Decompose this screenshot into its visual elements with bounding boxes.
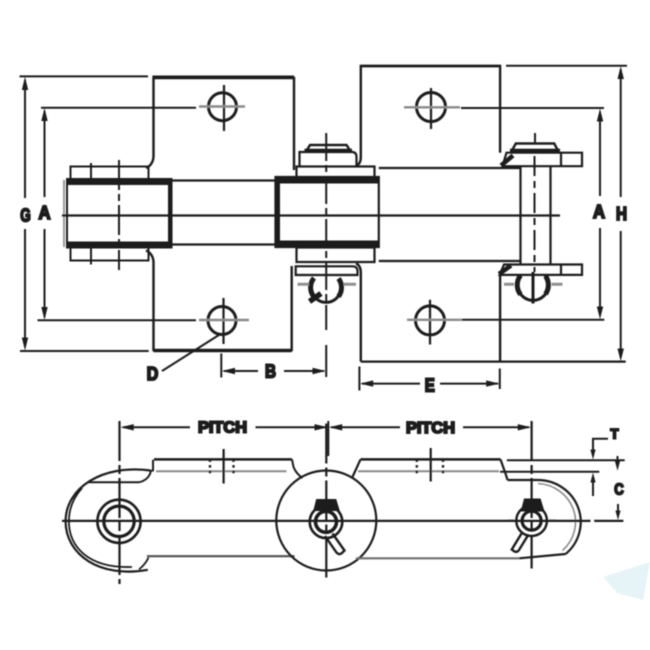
- right link left diagonal edge: [352, 459, 361, 478]
- side view horizontal centerline: [62, 520, 623, 522]
- right link hidden hole lines: [417, 459, 443, 474]
- left link end cap inner arc: [69, 488, 132, 567]
- right link right step diagonal: [501, 459, 508, 480]
- left pin vertical centerline: [118, 160, 120, 270]
- middle bottom cotter leg: [310, 294, 322, 302]
- right link bottom edge: [356, 557, 519, 559]
- pitch right arrowhead left: [329, 424, 342, 430]
- right pin gray dashes: [508, 519, 557, 522]
- middle pin cap dark base: [305, 149, 353, 153]
- E left extension line: [358, 367, 360, 391]
- left bushing bottom flange tick: [90, 244, 92, 265]
- A left dimension line: [44, 111, 46, 317]
- A right top extension line: [461, 107, 604, 109]
- svg-text:B: B: [265, 362, 276, 382]
- right pin top cotter tip: [501, 156, 513, 166]
- bottom-left hole horizontal crosshair: [199, 319, 249, 321]
- E dimension line: [362, 383, 498, 385]
- right link far plate top edge: [358, 470, 499, 472]
- left attachment plate bottom lug: [146, 251, 292, 351]
- svg-text:A: A: [593, 202, 605, 222]
- left attachment plate top lug top edge (thicker): [153, 76, 295, 79]
- T lower tail: [592, 481, 594, 496]
- svg-text:C: C: [614, 482, 624, 499]
- left roller right edge thick: [168, 179, 172, 248]
- T extension line upper: [507, 459, 625, 461]
- bottom-right hole: [416, 306, 445, 335]
- left bushing top flange: [71, 167, 149, 180]
- left link right step down: [292, 459, 303, 478]
- A left top extension line: [41, 107, 196, 109]
- svg-text:G: G: [20, 206, 31, 226]
- middle roller thick top band: [276, 177, 379, 184]
- bottom-left hole vertical crosshair: [222, 298, 224, 344]
- G top extension line: [20, 75, 149, 77]
- middle pin vertical centerline side: [325, 424, 327, 581]
- top-left hole horizontal crosshair: [199, 105, 245, 107]
- A right top arrowhead: [597, 109, 603, 122]
- left roller body: [67, 179, 172, 248]
- A right dimension line: [599, 112, 601, 316]
- right bottom cotter heavy arcs: [517, 276, 548, 295]
- left link bottom edge: [147, 555, 295, 557]
- svg-text:A: A: [39, 203, 51, 223]
- right pin cap dark base: [510, 149, 560, 153]
- left attachment plate top lug: [146, 78, 294, 170]
- right pin shank: [521, 166, 551, 264]
- right pin cotter leg: [512, 534, 529, 552]
- middle bushing top flange: [297, 167, 375, 179]
- A left top arrowhead: [41, 108, 47, 121]
- right link top chord: [508, 479, 539, 481]
- right pin top washer: [503, 153, 583, 167]
- A right bottom extension line: [462, 319, 604, 321]
- B dimension line: [224, 370, 324, 372]
- T dimension bracket: [592, 439, 608, 455]
- top-right hole vertical crosshair: [430, 88, 432, 129]
- G dimension line: [24, 80, 26, 347]
- right pin centerline dash: [534, 156, 536, 272]
- svg-text:PITCH: PITCH: [198, 419, 247, 436]
- right pin bottom washer divider: [560, 265, 562, 275]
- left roller thick top band: [67, 179, 172, 185]
- E left arrowhead: [360, 380, 373, 386]
- svg-text:D: D: [147, 364, 159, 384]
- B left arrowhead: [222, 368, 235, 374]
- pitch middle extension line: [327, 421, 329, 456]
- C lower arrowhead: [615, 511, 620, 521]
- left link end top chord: [89, 481, 140, 483]
- left link raised top edge: [154, 458, 292, 461]
- C lower dimension line: [617, 504, 619, 512]
- right pin top washer divider: [560, 153, 562, 167]
- left bushing top flange tick: [90, 163, 92, 183]
- A right bottom arrowhead: [597, 307, 603, 320]
- pitch right dimension line: [331, 426, 529, 428]
- G bottom extension line: [20, 350, 149, 352]
- left link top step fillet: [139, 460, 153, 483]
- right link end inner arc: [538, 484, 575, 551]
- left pin outer circle: [97, 500, 140, 543]
- svg-text:H: H: [616, 204, 627, 224]
- middle roller body: [276, 177, 379, 247]
- middle bottom cotter gray dashes: [298, 283, 357, 286]
- right link raised top edge: [361, 458, 501, 461]
- right pin cotter T-head: [522, 500, 543, 511]
- left bushing bottom flange: [71, 248, 149, 261]
- pitch left arrowhead right: [315, 424, 328, 430]
- D leader line: [162, 334, 221, 371]
- G top arrowhead: [22, 77, 28, 90]
- right pin inner ring: [522, 511, 541, 530]
- middle roller thick bottom band: [276, 241, 379, 248]
- G bottom arrowhead: [22, 338, 28, 351]
- top-right hole: [417, 93, 446, 122]
- right pin bottom washer: [500, 265, 582, 275]
- E right extension line: [499, 369, 501, 390]
- right link hole centerline tick: [430, 448, 432, 482]
- right pin cap trapezoid: [511, 144, 558, 152]
- right pin cap tick: [534, 133, 536, 144]
- svg-text:E: E: [425, 376, 435, 396]
- top-left hole vertical crosshair: [223, 85, 225, 131]
- right plate bottom edge + H extension line: [361, 361, 626, 363]
- B right arrowhead: [313, 368, 326, 374]
- left pin inner bushing ring: [104, 506, 134, 536]
- H bottom arrowhead: [618, 349, 624, 362]
- right attachment plate top lug: [356, 66, 500, 166]
- left roller thick bottom band: [67, 242, 172, 248]
- right pin vertical centerline side: [530, 421, 532, 569]
- T top arrowhead: [590, 450, 595, 460]
- left link end cap outer arc: [66, 469, 151, 571]
- B left extension line: [220, 354, 222, 378]
- middle bottom cotter ring heavy arcs: [311, 278, 342, 297]
- left link hole centerline tick: [223, 449, 225, 484]
- H dimension line: [620, 70, 622, 358]
- left link far plate top edge: [156, 470, 287, 472]
- middle cotter ring: [310, 506, 343, 539]
- middle pin top washer: [300, 152, 357, 167]
- inner sidebar edges left gap: [172, 181, 278, 245]
- svg-text:PITCH: PITCH: [406, 420, 455, 437]
- left pin vertical centerline side: [118, 421, 120, 584]
- middle pin cap trapezoid: [306, 145, 351, 152]
- middle cotter leg: [325, 534, 345, 555]
- right pin bottom cotter tip: [499, 266, 511, 275]
- H top extension line: [506, 65, 627, 67]
- left roller left shadow: [63, 180, 65, 247]
- middle roller left edge thick: [276, 177, 281, 247]
- left link bottom fillet: [139, 558, 149, 570]
- right link bottom chamfer: [519, 554, 565, 558]
- H top arrowhead: [618, 66, 624, 79]
- pitch left arrowhead left: [121, 424, 134, 430]
- middle pin vertical centerline: [325, 133, 327, 330]
- right pin ring: [516, 505, 547, 536]
- right bottom cotter gray dashes: [504, 283, 563, 286]
- B right extension line: [325, 345, 327, 377]
- right link end cap arc: [538, 480, 581, 554]
- left plate bottom edge: [154, 350, 292, 352]
- A left bottom arrowhead: [41, 307, 47, 320]
- right plate top edge: [361, 65, 500, 68]
- A left bottom extension line: [38, 319, 197, 321]
- right bottom cotter ring: [518, 275, 549, 300]
- svg-text:T: T: [611, 427, 620, 442]
- watermark smudge bottom right: [603, 562, 650, 600]
- bottom-right hole vertical crosshair: [429, 300, 431, 345]
- top-left hole: [209, 93, 237, 121]
- left link hidden hole lines: [210, 459, 234, 474]
- right bottom cotter tick: [532, 272, 535, 304]
- T lower arrowhead: [590, 473, 595, 483]
- bottom-right hole horizontal crosshair: [407, 319, 462, 321]
- C upper arrowhead: [615, 461, 620, 471]
- pitch right arrowhead right: [518, 424, 531, 430]
- pitch left dimension line: [123, 426, 326, 428]
- top view horizontal centerline: [62, 214, 560, 216]
- C upper dimension line: [617, 456, 619, 463]
- right attachment plate bottom lug: [356, 264, 500, 362]
- middle cotter T-head: [315, 500, 339, 510]
- middle cotter inner ring: [316, 511, 337, 532]
- E right arrowhead: [486, 380, 499, 386]
- middle pin bottom washer: [296, 266, 358, 275]
- outer sidebar edges right gap: [379, 168, 520, 261]
- middle bushing bottom flange: [297, 248, 375, 263]
- bottom-left hole: [208, 307, 236, 335]
- top-right hole horizontal crosshair: [404, 106, 460, 108]
- middle joint roller circle: [276, 471, 376, 571]
- middle bottom cotter ring: [311, 279, 341, 303]
